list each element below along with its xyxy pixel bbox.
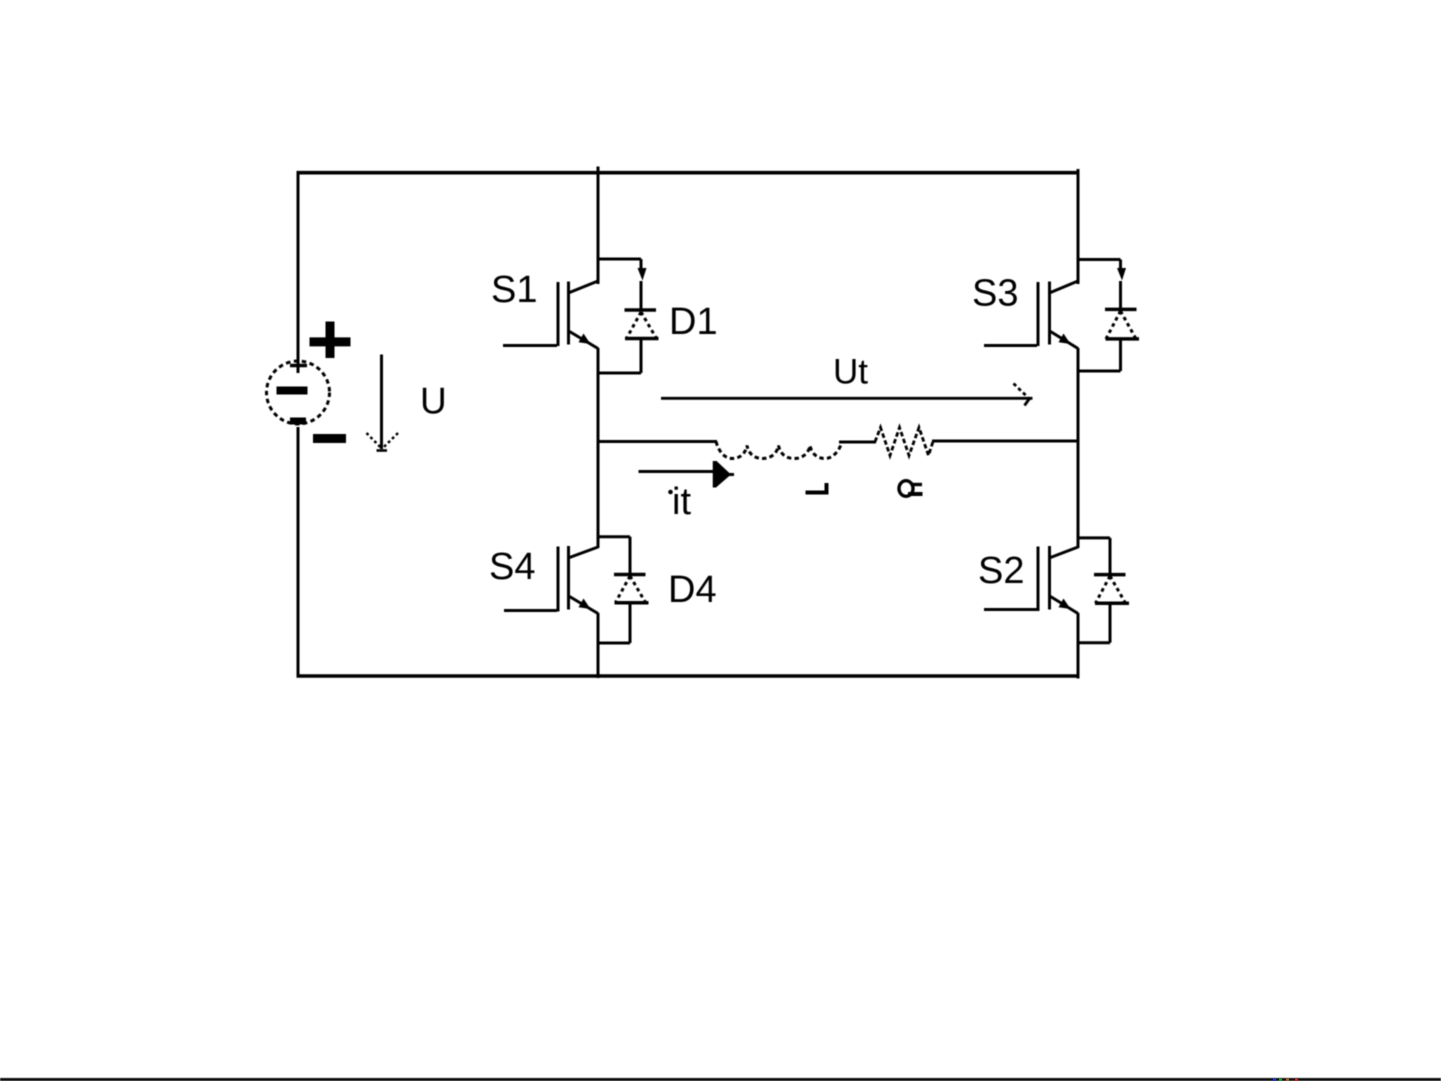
bottom line color artifacts [1273,1079,1298,1081]
diode D2 wire [1109,538,1112,575]
wire right rail middle [1077,348,1080,548]
wire S3 top branch [1078,258,1121,261]
transistor S4 emitter arrow [579,599,591,610]
transistor S1 gate bar [557,282,560,346]
transistor S4 collector lead [570,547,599,558]
wire right rail upper [1077,169,1080,284]
transistor S1 emitter arrow [579,334,591,345]
diode D2 cathode bar [1094,573,1126,577]
wire left rail upper [297,171,300,373]
diode D1 top wire [640,259,643,269]
transistor S3 body bar [1048,282,1051,345]
Ut arrow [661,384,1033,406]
wire S1 top branch [598,258,641,261]
label R [899,481,923,497]
wire S4 top branch [598,535,630,538]
wire left leg middle [597,348,600,548]
transistor S4 emitter lead [570,597,599,614]
wire load left [598,440,717,443]
wire inductor-resistor link [839,441,876,444]
svg-text:D4: D4 [668,569,717,611]
it label extra dot [668,490,673,495]
U arrow [367,355,399,451]
wire load right [932,440,1079,443]
wire left rail lower [297,427,300,678]
transistor S2 body bar [1048,546,1051,610]
transistor S2 emitter lead [1051,597,1079,614]
transistor S3 gate bar [1037,282,1040,346]
diode D2 triangle [1095,576,1129,603]
voltage source bottom tick [290,418,306,425]
transistor S3 collector lead [1051,281,1079,293]
diode D1 wire [640,281,643,310]
diode D3 cathode bar [1105,308,1137,312]
diode D1 bottom wire [640,339,643,374]
inductor L coil [716,442,842,459]
transistor S3 emitter lead [1051,332,1079,349]
label L [806,483,829,493]
svg-text:S4: S4 [489,546,535,588]
transistor S3 gate lead [984,344,1037,347]
transistor S2 collector lead [1051,547,1079,558]
diode D3 triangle [1106,311,1140,339]
svg-text:it: it [672,481,691,523]
transistor S2 emitter arrow [1059,599,1071,610]
svg-text:S1: S1 [491,269,537,311]
svg-text:S2: S2 [978,550,1024,592]
transistor S3 emitter arrow [1059,334,1071,345]
voltage source plus tick [290,364,307,368]
wire right rail lower [1077,613,1080,679]
wire left leg upper [597,167,600,285]
wire S4 bottom branch [598,642,630,645]
transistor S1 collector lead [570,281,599,293]
diode D1 triangle [625,312,659,339]
diode D2 bottom wire [1109,603,1112,643]
wire S1 bottom branch [598,372,641,375]
svg-text:Ut: Ut [833,353,868,392]
diode D3 bottom wire [1119,339,1122,371]
diode D3 wire [1119,281,1122,310]
bottom border line [0,1078,1441,1081]
resistor R zigzag [875,428,933,456]
transistor S4 body bar [567,546,570,610]
transistor S1 emitter lead [570,332,599,349]
wire S2 bottom branch [1078,641,1110,644]
wire left leg lower [597,613,600,678]
svg-text:S3: S3 [972,273,1018,315]
diode D4 bottom wire [629,603,632,643]
diode D4 wire [629,537,632,575]
svg-text:D1: D1 [669,301,718,343]
voltage source U circle [267,361,330,424]
plus sign label [310,322,351,359]
diode D1 current arrow [638,268,647,281]
transistor S4 gate lead [504,609,557,612]
svg-text:U: U [420,381,447,422]
wire S3 bottom branch [1078,370,1121,373]
wire top rail [297,171,1080,175]
minus sign label [313,434,346,443]
transistor S2 gate bar [1037,547,1040,612]
diode D3 current arrow [1117,268,1126,281]
it arrow [639,461,735,488]
diode D1 cathode bar [625,308,657,312]
transistor S2 gate lead [984,608,1037,611]
transistor S1 body bar [567,282,570,345]
diode D3 top wire [1119,260,1122,270]
voltage source minus bar [277,387,308,395]
wire bottom rail [297,674,1080,678]
diode D4 triangle [615,576,649,603]
transistor S1 gate lead [503,344,557,347]
diode D4 cathode bar [614,573,646,577]
wire S2 top branch [1078,536,1110,539]
transistor S4 gate bar [557,547,560,612]
